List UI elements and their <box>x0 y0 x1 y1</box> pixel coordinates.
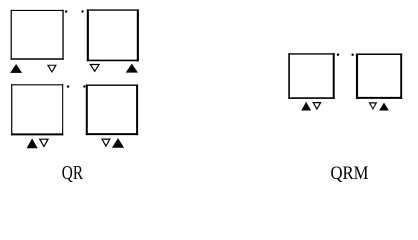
filled up-triangle under S5 <box>301 102 311 111</box>
magnet block S1 (QR top-left square) <box>11 10 64 60</box>
filled up-triangle under S4 <box>112 138 124 148</box>
open down-triangle under S2 <box>89 64 100 73</box>
polarity dot of S4 <box>83 85 85 87</box>
polarity dot of S6 <box>351 54 353 56</box>
polarity dot of S1 <box>65 10 67 12</box>
filled up-triangle under S3 <box>27 138 38 148</box>
open down-triangle under S3 <box>39 139 49 148</box>
open down-triangle under S1 <box>47 65 57 73</box>
filled up-triangle under S2 <box>126 64 138 73</box>
magnet block S4 (QR bottom-right square) <box>86 85 138 136</box>
svg-text:QR: QR <box>62 162 84 184</box>
polarity dot of S3 <box>67 85 69 87</box>
filled up-triangle under S1 <box>10 64 22 73</box>
polarity dot of S2 <box>81 10 83 12</box>
open down-triangle under S5 <box>312 102 321 110</box>
open down-triangle under S6 <box>369 102 378 110</box>
magnet block S5 (QRM left square) <box>288 53 334 99</box>
magnet block S2 (QR top-right square) <box>87 9 139 61</box>
open down-triangle under S4 <box>101 139 111 148</box>
svg-text:QRM: QRM <box>331 163 369 184</box>
filled up-triangle under S6 <box>379 103 389 111</box>
magnet block S6 (QRM right square) <box>356 54 402 99</box>
magnet block S3 (QR bottom-left square) <box>11 84 63 135</box>
polarity dot of S5 <box>337 54 339 56</box>
